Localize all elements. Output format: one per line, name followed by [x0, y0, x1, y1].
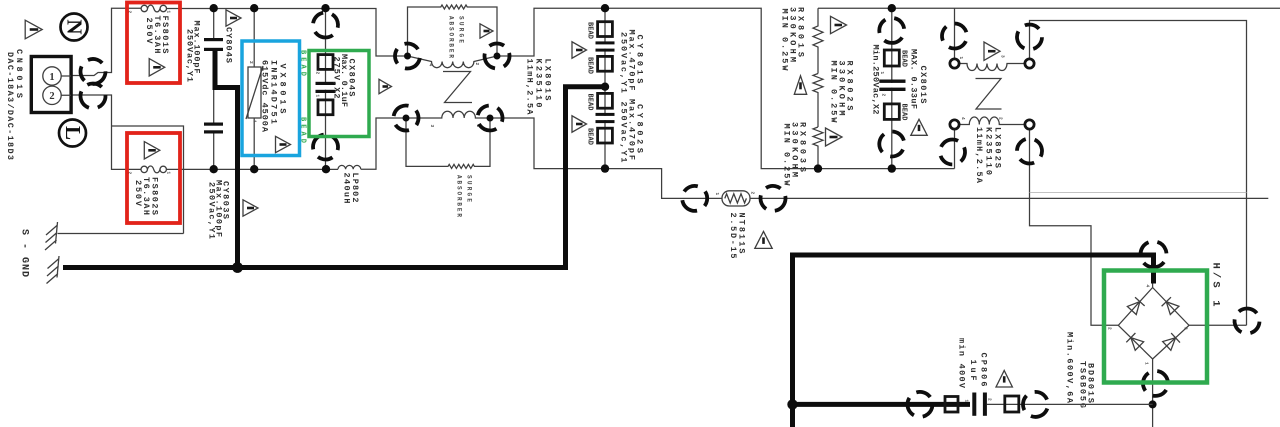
svg-text:3: 3: [429, 125, 435, 128]
resistor RX802S: [794, 61, 854, 128]
svg-text:2: 2: [1107, 327, 1113, 330]
thick wire CP806 branch: [793, 402, 971, 407]
svg-text:250V: 250V: [144, 18, 154, 45]
svg-text:250Vac,Y1: 250Vac,Y1: [619, 32, 629, 93]
ground (S-GND upper): [45, 222, 184, 250]
svg-text:250V: 250V: [133, 180, 143, 207]
svg-text:MIN 0.25W: MIN 0.25W: [782, 124, 792, 187]
wire top right rail from RX801S to right edge: [818, 7, 1280, 9]
svg-text:CP806: CP806: [979, 353, 989, 387]
svg-text:2: 2: [987, 398, 993, 401]
junction CY mid: [601, 83, 609, 91]
svg-text:3: 3: [1000, 55, 1006, 58]
svg-text:MIN 0.25W: MIN 0.25W: [780, 9, 790, 72]
wire L run: LX801S out down to NT811S rail, across to right edge: [490, 118, 1268, 198]
resistor RX801S: [780, 7, 847, 74]
svg-text:2: 2: [998, 117, 1004, 120]
svg-text:K235110: K235110: [984, 127, 994, 175]
thermistor NT811S: [680, 184, 787, 259]
svg-text:min 400V: min 400V: [957, 338, 967, 389]
wire N top run: FS801S out to LX801S: [167, 9, 408, 57]
junction dots on rails: [210, 4, 218, 12]
svg-text:240uH: 240uH: [342, 173, 352, 204]
svg-text:CY804S: CY804S: [224, 27, 234, 63]
fuse FS802S: [127, 133, 181, 223]
wire LX802S bottom-right pin to bridge left pin: [1030, 129, 1119, 325]
fuse FS801S: [127, 3, 181, 84]
svg-text:L: L: [61, 126, 85, 140]
svg-text:1: 1: [166, 11, 172, 14]
svg-text:2.5D-15: 2.5D-15: [728, 213, 738, 259]
wire shield outline around FS802S to ground: [112, 126, 184, 234]
wire N run: LX801S out, down to 168.6 rail, to LX802S bottom-left: [497, 8, 955, 168]
bridge rectifier BD801S: [1065, 238, 1264, 427]
svg-text:ABSORBER: ABSORBER: [456, 175, 463, 217]
capacitor CY803S: [204, 88, 258, 240]
svg-text:1: 1: [166, 172, 172, 175]
svg-text:2: 2: [750, 192, 756, 195]
wire: [361, 118, 406, 169]
svg-text:MAX. 0.33uF: MAX. 0.33uF: [909, 49, 919, 109]
wire pin2 to fuse FS802S: [71, 95, 141, 169]
svg-text:11mH,2.5A: 11mH,2.5A: [525, 59, 535, 116]
label N: [61, 14, 88, 41]
svg-text:615Vdc 4500A: 615Vdc 4500A: [260, 60, 270, 133]
svg-text:MIN 0.25W: MIN 0.25W: [829, 61, 839, 124]
capacitor CY804S: [185, 8, 242, 82]
svg-text:1: 1: [964, 400, 970, 403]
surge absorber (bottom): [406, 118, 490, 217]
choke LX802S: [935, 18, 1047, 184]
svg-text:BEAD: BEAD: [586, 128, 594, 145]
dashed circles LX801S nodes: [390, 39, 424, 73]
svg-text:BEAD: BEAD: [900, 104, 908, 121]
junction S-GND bus: [232, 262, 243, 273]
dashed circle (input pair): [77, 55, 109, 87]
capacitor CX804S (bead-cap-bead): [299, 8, 370, 169]
capacitor CY802S (bead-cap-bead): [572, 93, 645, 162]
wire LX802S top-right pin to bridge AC (module loop): [1030, 21, 1247, 326]
svg-text:BEAD: BEAD: [586, 22, 594, 39]
node dots LX801S: [404, 53, 411, 60]
wire pin1 to fuse FS801S: [71, 8, 141, 75]
label L: [59, 120, 86, 147]
svg-text:2: 2: [474, 63, 480, 66]
warning triangle (LX801S left): [379, 79, 392, 93]
svg-text:1: 1: [958, 57, 964, 60]
svg-text:1: 1: [252, 120, 258, 123]
capacitor CP806 (bead-cap-bead): [902, 338, 1152, 422]
thick wire CY804S/CY803S to S-GND: [215, 51, 238, 268]
svg-text:11mH,2.5A: 11mH,2.5A: [974, 127, 984, 184]
inductor LP802: [338, 165, 361, 169]
dashed circle: [75, 78, 110, 113]
junction DC bus: [787, 399, 797, 409]
varistor VX801S: [242, 8, 300, 169]
resistor RX803S: [782, 122, 843, 186]
svg-text:1uF: 1uF: [968, 360, 978, 381]
svg-text:2: 2: [49, 91, 54, 102]
choke LX801S: [406, 56, 553, 128]
svg-text:BEAD: BEAD: [586, 57, 594, 74]
svg-text:Min.250Vac,X2: Min.250Vac,X2: [871, 45, 881, 115]
svg-text:250Vac,Y1: 250Vac,Y1: [207, 182, 217, 239]
svg-text:2: 2: [248, 61, 254, 64]
svg-text:Min.600V,6A: Min.600V,6A: [1065, 332, 1075, 404]
svg-text:4: 4: [1145, 285, 1151, 288]
svg-text:1: 1: [1144, 362, 1150, 365]
svg-text:275V,X2: 275V,X2: [332, 57, 342, 99]
svg-text:250Vac,Y1: 250Vac,Y1: [185, 29, 195, 82]
warning triangle (AC input): [25, 20, 42, 39]
connector CN801S: [5, 49, 71, 160]
svg-text:BEAD: BEAD: [586, 94, 594, 111]
svg-text:DAC-18A3/DAC-18D3: DAC-18A3/DAC-18D3: [5, 52, 15, 160]
svg-text:3: 3: [1183, 327, 1189, 330]
module outline (faint bottom edge): [1030, 192, 1247, 194]
svg-text:4: 4: [960, 117, 966, 120]
svg-text:N: N: [63, 19, 87, 34]
svg-text:CX801S: CX801S: [918, 66, 928, 104]
surge absorber (top): [408, 5, 498, 58]
capacitor CX801S (bead-cap-bead): [871, 8, 929, 168]
svg-text:1: 1: [315, 95, 321, 98]
capacitor CY801S (bead-cap-bead): [572, 8, 645, 168]
svg-text:2: 2: [315, 72, 321, 75]
thick wire bridge DC+ bus: [793, 255, 1154, 427]
svg-text:S - GND: S - GND: [19, 229, 30, 277]
svg-text:TS6B05G: TS6B05G: [1078, 361, 1088, 408]
svg-text:4: 4: [428, 64, 434, 67]
svg-text:1: 1: [49, 72, 54, 83]
svg-text:ABSORBER: ABSORBER: [448, 16, 455, 58]
svg-text:BEAD: BEAD: [900, 50, 908, 67]
svg-text:250Vac,Y1: 250Vac,Y1: [619, 102, 629, 163]
ground (S-GND lower): [47, 256, 60, 284]
svg-text:1: 1: [714, 193, 720, 196]
wire L run: FS802S out, through LP802 to LX801S: [166, 168, 338, 170]
wire LX802S left pins feed: [954, 8, 956, 168]
thick wire CY801S mid to S-GND bus: [63, 87, 605, 268]
